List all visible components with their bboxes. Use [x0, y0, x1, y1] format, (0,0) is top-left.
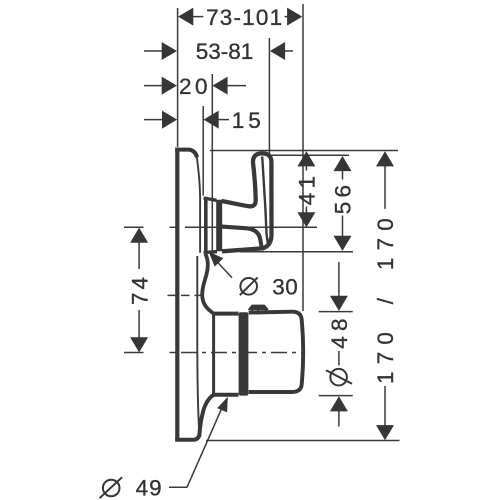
escutcheon plate back edge	[175, 148, 179, 442]
extension line handle bottom y=251.8	[240, 251, 353, 253]
extension line top y=150.5	[210, 150, 398, 152]
svg-text:49: 49	[136, 475, 163, 500]
svg-text:73-101: 73-101	[206, 5, 283, 30]
grip inner contour	[262, 157, 268, 245]
sleeve back edge	[212, 314, 215, 395]
lever handle outline	[222, 153, 272, 251]
sleeve top edge	[212, 312, 239, 316]
reference line handle axis y=227.3	[185, 226, 317, 228]
sleeve lower flare	[199, 395, 213, 436]
dimension 15	[144, 108, 265, 133]
svg-text:41: 41	[295, 172, 320, 205]
handle hub	[216, 200, 222, 252]
rosette back edge	[204, 198, 208, 253]
svg-text:48: 48	[327, 313, 352, 348]
knob rear rim band	[239, 312, 249, 395]
extension line handle front x=269.4	[268, 38, 270, 155]
svg-text:53-81: 53-81	[196, 39, 254, 64]
svg-text:170 / 170: 170 / 170	[373, 211, 398, 384]
dome bulge between handle and knob	[202, 254, 213, 313]
svg-text:56: 56	[331, 181, 356, 214]
escutcheon plate bottom edge	[175, 435, 199, 440]
rosette bottom step	[204, 250, 217, 254]
svg-text:74: 74	[127, 274, 152, 305]
centerline knob axis	[124, 352, 144, 354]
dimension 56 (vertical)	[331, 156, 356, 251]
escutcheon plate front face lower	[197, 256, 199, 435]
label Ø49 with leader	[100, 397, 228, 500]
svg-text:30: 30	[272, 274, 298, 299]
centerline handle axis	[124, 226, 144, 228]
label Ø30 with leader	[209, 252, 299, 300]
extension line wall x=177.6	[177, 8, 179, 147]
dimension 74 (left, vertical)	[127, 228, 152, 353]
extension line knob front x=303	[302, 4, 304, 311]
economy button cap	[249, 305, 268, 309]
extension line bottom y=440.5	[206, 440, 400, 442]
dimension 73-101	[178, 5, 302, 30]
extension line x=203.2	[202, 106, 204, 196]
svg-text:15: 15	[232, 108, 265, 133]
lever arm bottom edge / hook inner	[222, 227, 262, 248]
thermostat knob outline	[249, 312, 304, 392]
dimension 20	[144, 74, 246, 99]
extension stub knob bottom y=395.6	[319, 395, 353, 397]
extension stub knob top y=311.6	[319, 311, 353, 313]
centerline plate middle	[168, 294, 177, 296]
dimension 41 (vertical)	[295, 151, 320, 227]
dimension 170/170 (right, vertical)	[373, 151, 398, 440]
economy button legs	[251, 309, 253, 312]
svg-text:20: 20	[179, 74, 211, 99]
escutcheon plate top edge	[175, 150, 197, 158]
dimension Ø48 (vertical)	[326, 262, 352, 427]
escutcheon plate front face upper	[197, 158, 200, 253]
rosette top step	[204, 198, 217, 200]
extension line handle top y=155.3	[269, 154, 349, 156]
sleeve bottom edge	[212, 393, 239, 397]
dimension 53-81	[144, 39, 293, 64]
extension line x=212.3	[211, 74, 213, 252]
